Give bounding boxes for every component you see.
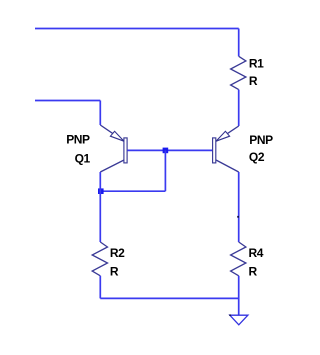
pin dot at ground corner [229, 314, 231, 316]
svg-text:R: R [249, 265, 258, 279]
wire bottom rail [100, 297, 238, 299]
svg-text:R2: R2 [110, 246, 125, 260]
wire Q2 collector down to R4 [238, 172, 240, 242]
wire left input drop to Q1 [99, 101, 101, 126]
svg-text:R: R [110, 265, 119, 279]
wire R2 to bottom rail [99, 276, 101, 299]
svg-text:Q1: Q1 [75, 151, 91, 165]
svg-text:R1: R1 [249, 56, 264, 70]
svg-text:R: R [249, 74, 258, 88]
node base junction [163, 148, 169, 154]
ground [230, 315, 248, 325]
wire left input rail [35, 100, 100, 102]
svg-text:PNP: PNP [66, 133, 90, 147]
wire junction down [164, 150, 166, 191]
transistor Q2 [213, 126, 239, 172]
wire top rail [35, 28, 239, 30]
svg-text:Q2: Q2 [249, 150, 265, 164]
svg-text:PNP: PNP [249, 133, 273, 147]
resistor R4 [231, 242, 246, 276]
wire Q1 collector down to R2 [99, 172, 101, 242]
resistor R1 [231, 56, 246, 89]
wire R1 to Q2 emitter [238, 90, 240, 126]
pin dot on R4 wire [237, 216, 239, 218]
resistor R2 [92, 242, 107, 276]
wire top rail drop to R1 [238, 29, 240, 57]
node collector junction [98, 188, 104, 194]
transistor Q1 [100, 125, 127, 172]
wire R4 to ground [238, 276, 240, 315]
wire junction left to collector node [101, 190, 166, 192]
svg-text:R4: R4 [249, 246, 264, 260]
wire base bus Q1 to Q2 [127, 149, 212, 151]
